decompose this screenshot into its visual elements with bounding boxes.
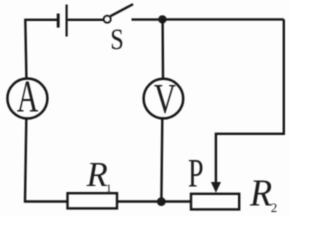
node: top junction dot [158, 15, 166, 23]
ammeter U-A circle [7, 79, 47, 119]
battery cell: short negative plate [57, 14, 60, 28]
rheostat R2 box [191, 194, 239, 210]
svg-text:R: R [249, 172, 272, 214]
node: bottom junction dot [157, 197, 166, 206]
wire bottom node to R2 [164, 200, 191, 202]
wire R1 to bottom node [117, 200, 159, 202]
svg-text:R: R [86, 156, 108, 194]
wire switch contact to top node [132, 18, 161, 20]
resistor R1 box [68, 193, 118, 208]
wire ammeter to bottom-left corner and along bottom to R1 [25, 119, 68, 202]
voltmeter U-V circle [144, 79, 184, 119]
svg-text:2: 2 [271, 200, 278, 215]
switch S blade (open) [110, 4, 133, 16]
svg-text:S: S [110, 23, 124, 56]
battery cell: long positive plate [65, 5, 67, 37]
svg-text:P: P [188, 152, 204, 196]
slider arrowhead onto R2 [211, 182, 221, 193]
wire top node down to voltmeter [161, 19, 164, 78]
svg-text:A: A [17, 72, 39, 122]
svg-text:V: V [154, 75, 177, 122]
wire top-left: battery to left corner and down to ammeter [25, 20, 57, 78]
svg-text:1: 1 [106, 181, 112, 195]
switch S pivot circle [104, 16, 111, 23]
wire battery to switch [68, 19, 104, 21]
wire top node to top-right corner [164, 18, 284, 20]
wire right side down [216, 19, 284, 183]
wire voltmeter down to bottom node [160, 119, 163, 198]
